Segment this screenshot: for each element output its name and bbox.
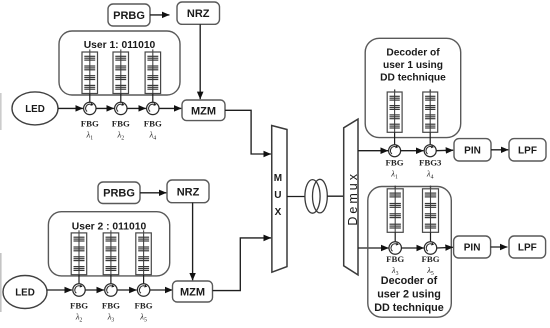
stub grating->circulator (dec2 #2) <box>430 232 432 241</box>
wire circ1->circ2 (decoder 2) <box>401 247 424 249</box>
svg-text:User 2 : 011010: User 2 : 011010 <box>72 222 147 233</box>
stub above grating (dec2 #1) <box>394 186 396 189</box>
svg-text:NRZ: NRZ <box>177 186 200 198</box>
block NRZ (user 2) <box>167 180 209 203</box>
LED source (user 1) <box>12 92 58 125</box>
svg-text:MUX: MUX <box>274 173 282 218</box>
svg-text:FBG: FBG <box>70 300 88 310</box>
label FBG lambda4 <box>144 119 162 142</box>
block PIN (user 1) <box>454 139 491 161</box>
svg-text:PRBG: PRBG <box>113 10 145 22</box>
Demux trapezoid <box>344 119 358 275</box>
wire MUX->fiber coil <box>287 196 305 198</box>
svg-text:PIN: PIN <box>464 145 481 156</box>
FBG grating 2 (decoder user 1) <box>423 89 438 132</box>
label FBG lambda5 (dec2) <box>421 254 439 277</box>
FBG grating 1 (decoder user 2) <box>387 186 403 232</box>
scan artifact: faint left-edge sliver top <box>0 93 2 130</box>
FBG grating 2 (encoder user 1) <box>113 49 129 93</box>
circulator 2 (encoder user 1) <box>115 102 127 114</box>
stub above grating (dec2 #2) <box>430 186 432 189</box>
FBG grating 3 (encoder user 2) <box>136 230 152 274</box>
label FBG lambda1 <box>81 119 99 142</box>
circulator 1 (decoder user 1) <box>389 145 401 157</box>
stub grating->circulator (enc2 #3) <box>143 275 145 284</box>
label FBG lambda3 (dec2) <box>386 254 404 277</box>
svg-text:LPF: LPF <box>518 243 537 254</box>
circulator 3 (encoder user 1) <box>147 102 159 114</box>
wire LED->circulator1 (user 2) <box>47 289 72 291</box>
svg-text:User 1: 011010: User 1: 011010 <box>84 40 156 51</box>
label FBG lambda1 (dec1) <box>386 158 404 181</box>
wire circ3->MZM (user 2) <box>150 289 173 291</box>
circulator 1 (encoder user 2) <box>73 284 85 296</box>
label FBG3 lambda4 (dec1) <box>419 158 442 181</box>
block LPF (user 2) <box>509 236 546 258</box>
wire circ2->PIN (decoder 2) <box>437 246 453 249</box>
wire Demux->decoder2 <box>358 247 389 249</box>
wire circ1->circ2 (user 1) <box>96 107 114 109</box>
wire PIN->LPF (user 2) <box>491 246 508 248</box>
stub grating->circulator (enc2 #2) <box>110 275 112 284</box>
svg-text:Demux: Demux <box>346 171 360 226</box>
svg-text:FBG3: FBG3 <box>419 158 442 168</box>
svg-text:PIN: PIN <box>464 243 481 254</box>
FBG grating 1 (decoder user 1) <box>387 89 402 132</box>
block LPF (user 1) <box>509 139 546 161</box>
svg-text:Decoder ofuser 1 usingDD techn: Decoder ofuser 1 usingDD technique <box>380 48 446 84</box>
label FBG lambda2 (enc2) <box>70 300 88 323</box>
svg-text:FBG: FBG <box>102 300 120 310</box>
encoder box User 2 <box>48 212 169 276</box>
circulator 2 (decoder user 1) <box>424 145 436 157</box>
wire Demux->decoder1 <box>358 150 388 152</box>
block MZM (user 1) <box>182 100 225 121</box>
circulator 2 (encoder user 2) <box>105 284 117 296</box>
stub grating->circulator (enc2 #1) <box>78 275 80 284</box>
circulator 1 (decoder user 2) <box>389 242 401 254</box>
wire circ2->PIN (decoder 1) <box>436 149 453 152</box>
block PRBG (user 1) <box>108 4 150 26</box>
label FBG lambda5 (enc2) <box>135 300 153 323</box>
FBG grating 2 (decoder user 2) <box>423 186 439 232</box>
FBG grating 1 (encoder user 1) <box>82 49 98 93</box>
wire circ2->circ3 (user 1) <box>127 107 146 109</box>
svg-text:PRBG: PRBG <box>103 188 135 200</box>
wire PIN->LPF (user 1) <box>491 149 508 151</box>
wire circ1->circ2 (decoder 1) <box>401 150 424 152</box>
circulator 2 (decoder user 2) <box>424 242 436 254</box>
wire circ2->circ3 (user 2) <box>117 289 137 291</box>
decoder box user 2 <box>368 187 452 318</box>
LED source (user 2) <box>3 276 47 309</box>
scan artifact: faint left-edge sliver bottom <box>0 253 2 312</box>
wire PRBG->NRZ (user 2) <box>140 192 166 194</box>
wire NRZ->MZM (user 2) <box>192 203 194 281</box>
wire MZM2->MUX (bend) <box>213 238 272 291</box>
svg-text:FBG: FBG <box>386 158 404 168</box>
circulator 3 (encoder user 2) <box>137 284 149 296</box>
stub above grating (dec1 #1) <box>394 90 396 93</box>
label FBG lambda3 (enc2) <box>102 300 120 323</box>
wire fiber coil->Demux <box>327 195 343 197</box>
block PRBG (user 2) <box>98 182 140 204</box>
fiber coil loop 1 <box>305 180 320 214</box>
svg-text:FBG: FBG <box>421 254 439 264</box>
svg-text:NRZ: NRZ <box>187 8 210 20</box>
block PIN (user 2) <box>454 236 491 258</box>
svg-text:MZM: MZM <box>180 287 205 299</box>
wire circ1->circ2 (user 2) <box>85 289 104 291</box>
svg-text:LED: LED <box>15 288 35 299</box>
MUX trapezoid <box>272 126 287 273</box>
svg-text:LPF: LPF <box>518 145 537 156</box>
svg-text:FBG: FBG <box>135 300 153 310</box>
stub above grating (dec1 #2) <box>429 90 431 93</box>
svg-text:Decoder ofuser 2 usingDD techn: Decoder ofuser 2 usingDD technique <box>374 275 444 314</box>
stub grating->circulator (enc1 #1) <box>89 94 91 103</box>
wire circ3->MZM (user 1) <box>159 107 181 109</box>
stub grating->circulator (dec1 #1) <box>394 132 396 144</box>
FBG grating 1 (encoder user 2) <box>71 230 87 274</box>
svg-text:MZM: MZM <box>191 105 216 117</box>
stub grating->circulator (enc1 #2) <box>120 94 122 103</box>
block NRZ (user 1) <box>177 2 220 24</box>
wire PRBG->NRZ (user 1) <box>150 14 169 16</box>
svg-text:FBG: FBG <box>144 119 162 129</box>
FBG grating 3 (encoder user 1) <box>145 49 161 93</box>
stub grating->circulator (dec1 #2) <box>429 132 431 144</box>
wire LED->circulator1 (user 1) <box>58 107 83 109</box>
block MZM (user 2) <box>173 281 213 302</box>
encoder box User 1 <box>59 31 180 95</box>
stub grating->circulator (dec2 #1) <box>394 232 396 241</box>
label FBG lambda2 <box>112 119 130 142</box>
wire NRZ->MZM (user 1) <box>199 24 201 99</box>
FBG grating 2 (encoder user 2) <box>103 230 119 274</box>
stub grating->circulator (enc1 #3) <box>152 94 154 103</box>
fiber coil loop 2 <box>313 179 328 213</box>
circulator 1 (encoder user 1) <box>84 102 96 114</box>
decoder box user 1 <box>365 38 461 137</box>
svg-text:FBG: FBG <box>386 254 404 264</box>
svg-text:LED: LED <box>25 104 45 115</box>
svg-text:FBG: FBG <box>112 119 130 129</box>
wire MZM1->MUX (bend) <box>225 110 271 154</box>
svg-text:FBG: FBG <box>81 119 99 129</box>
